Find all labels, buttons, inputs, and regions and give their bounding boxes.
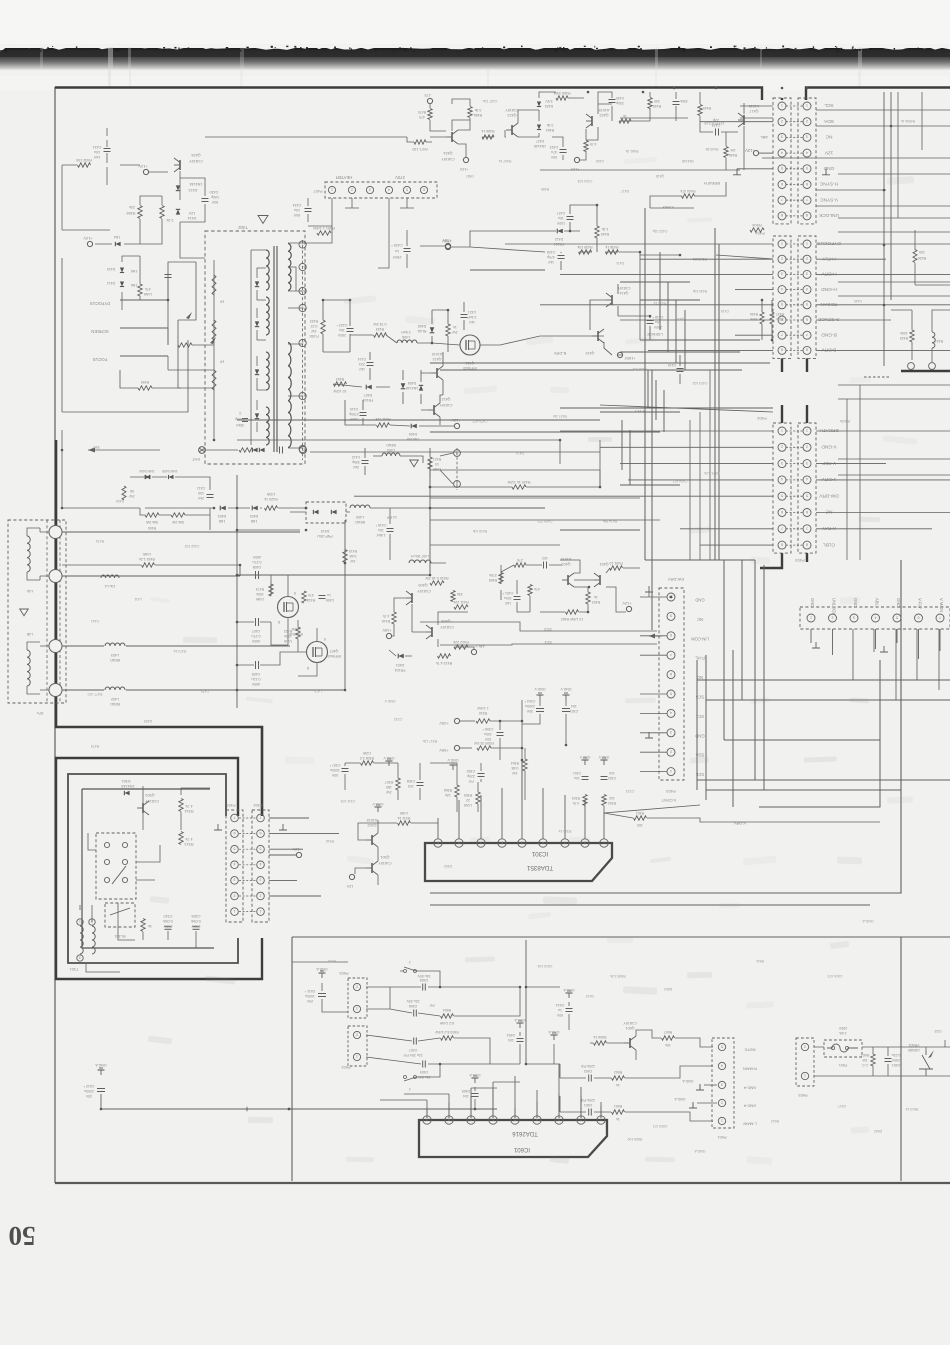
svg-text:1: 1 <box>806 241 808 245</box>
svg-text:R425: R425 <box>900 336 908 340</box>
svg-text:5: 5 <box>781 166 783 170</box>
svg-text:R468: R468 <box>474 113 482 117</box>
svg-text:GND-A: GND-A <box>563 988 575 992</box>
svg-text:1k: 1k <box>453 325 457 329</box>
svg-text:2: 2 <box>806 119 808 123</box>
svg-text:2: 2 <box>832 615 834 619</box>
svg-text:R466 1k: R466 1k <box>481 129 494 133</box>
terminal +180V <box>617 352 622 357</box>
capacitor C308 <box>417 782 424 784</box>
svg-text:0.22u: 0.22u <box>892 1053 901 1057</box>
svg-text:Q405: Q405 <box>418 583 427 587</box>
svg-text:7: 7 <box>781 333 783 337</box>
svg-text:1: 1 <box>781 428 783 432</box>
T402 hv diode 3 <box>255 369 259 374</box>
svg-text:3: 3 <box>564 840 566 844</box>
svg-text:R445: R445 <box>703 106 711 110</box>
svg-text:C305: C305 <box>467 769 475 773</box>
svg-text:1: 1 <box>356 1006 358 1010</box>
IC301 pin 4 <box>539 839 547 847</box>
svg-text:1000u: 1000u <box>330 768 340 772</box>
svg-text:GND-A: GND-A <box>862 919 874 923</box>
heater pin 5 <box>403 186 410 193</box>
wires q301 <box>355 820 438 885</box>
mid pin NC <box>667 671 675 679</box>
svg-text:TDA2616: TDA2616 <box>512 1130 538 1136</box>
svg-text:R602: R602 <box>614 1070 622 1074</box>
row pin GND <box>850 614 858 622</box>
svg-text:+18V: +18V <box>382 628 391 632</box>
svg-text:1: 1 <box>810 615 812 619</box>
resistor R411 <box>454 605 468 609</box>
svg-text:L4A: L4A <box>26 589 33 593</box>
diode D421 <box>419 385 423 390</box>
svg-text:1: 1 <box>603 840 605 844</box>
wire right mesh extras <box>838 217 950 219</box>
wires diff <box>501 560 640 612</box>
svg-text:Q426: Q426 <box>191 153 200 157</box>
resistor R473 <box>269 584 273 596</box>
wires hout4 <box>365 448 453 484</box>
svg-text:B-GND: B-GND <box>821 331 837 337</box>
svg-text:GND-V: GND-V <box>372 802 384 806</box>
svg-text:DYFOCUS: DYFOCUS <box>817 240 840 246</box>
svg-text:J: J <box>409 960 411 964</box>
svg-text:R452: R452 <box>336 377 344 381</box>
svg-text:33u 50V: 33u 50V <box>417 974 431 978</box>
svg-text:BEAD: BEAD <box>110 658 120 662</box>
yoke inner dashed <box>59 520 61 703</box>
diode D401 <box>398 654 404 659</box>
svg-text:R307: R307 <box>385 780 393 784</box>
wire sc2 long <box>420 622 657 631</box>
svg-text:3: 3 <box>79 955 81 959</box>
gnd vq <box>452 765 454 770</box>
transistor Q412 <box>433 405 435 415</box>
resistor R462b <box>566 610 579 614</box>
T402 hv diode 2 <box>255 321 259 326</box>
svg-text:2: 2 <box>234 893 236 897</box>
svg-text:Q303: Q303 <box>145 793 154 797</box>
svg-text:D406: D406 <box>409 432 417 436</box>
row pin UNLOCK <box>829 614 837 622</box>
svg-text:0.27u: 0.27u <box>252 634 261 638</box>
resistor R421 <box>428 457 432 469</box>
svg-text:1N4148: 1N4148 <box>534 144 546 148</box>
wire hfly <box>600 355 773 412</box>
diode D423 zener <box>537 102 541 107</box>
resistor R314 <box>179 799 183 812</box>
pin 8 B-DRV <box>778 346 786 354</box>
svg-text:H-FLY: H-FLY <box>821 255 835 261</box>
svg-text:330k: 330k <box>680 99 688 103</box>
svg-text:35V: 35V <box>526 709 533 713</box>
IC601 pin 3 <box>555 1116 563 1124</box>
capacitor C408 <box>255 571 257 579</box>
transistor Q424 <box>451 132 453 142</box>
transistor Q422 <box>591 116 593 126</box>
deflection block nested loop 3 <box>82 789 214 948</box>
svg-text:R410 0.18 2W: R410 0.18 2W <box>425 576 449 580</box>
terminal +30V <box>445 243 450 248</box>
wire mesh g3 right <box>816 430 950 432</box>
capacitor C418 <box>647 320 654 322</box>
wire fet2 <box>237 620 317 676</box>
resistor R472 <box>138 284 142 296</box>
svg-text:470: 470 <box>419 115 425 119</box>
resistor R306 <box>455 785 459 797</box>
T402 hv diode 5 <box>252 448 257 452</box>
svg-text:GND-V: GND-V <box>579 755 590 759</box>
svg-text:R470: R470 <box>418 110 426 114</box>
wire mesh g2 rows <box>505 243 773 245</box>
resistor R417 <box>451 591 455 602</box>
svg-text:2: 2 <box>356 984 358 988</box>
svg-text:250V: 250V <box>163 924 172 928</box>
mid pin SDA <box>667 748 675 756</box>
terminal 12v amp2 <box>574 157 579 162</box>
mid pin SC3 <box>667 690 675 698</box>
resistor R301 <box>634 816 647 820</box>
svg-text:R427 1M: R427 1M <box>553 414 567 418</box>
svg-text:150k: 150k <box>256 592 264 596</box>
svg-text:D414: D414 <box>188 216 197 220</box>
svg-text:250V: 250V <box>891 1058 900 1062</box>
svg-text:1000u: 1000u <box>305 994 315 998</box>
capacitor C423 <box>347 328 354 330</box>
svg-text:C1815Y: C1815Y <box>417 589 431 593</box>
svg-text:GND: GND <box>466 174 474 178</box>
svg-text:C408: C408 <box>253 565 262 569</box>
coil L405 <box>350 505 370 508</box>
svg-text:4: 4 <box>302 264 304 268</box>
svg-text:NC: NC <box>697 617 703 622</box>
svg-text:R433: R433 <box>376 327 384 331</box>
svg-text:D417: D417 <box>621 189 629 193</box>
svg-text:R424: R424 <box>935 339 943 343</box>
svg-text:GND-A: GND-A <box>548 1030 560 1034</box>
svg-text:50V: 50V <box>211 200 218 204</box>
transistor Q419 <box>743 115 745 125</box>
svg-text:C428: C428 <box>547 250 555 254</box>
svg-text:BEAD: BEAD <box>386 443 396 447</box>
diode D411 <box>120 282 124 287</box>
wires audio right <box>814 1040 950 1076</box>
svg-text:GND: GND <box>823 165 834 171</box>
svg-text:1/4W: 1/4W <box>142 552 151 556</box>
svg-text:R475: R475 <box>91 744 99 748</box>
svg-text:5: 5 <box>721 1044 723 1048</box>
mid pin SC1 <box>667 709 675 717</box>
capacitor C401 <box>514 596 521 598</box>
svg-text:R426: R426 <box>918 256 927 260</box>
resistor R468 <box>468 107 472 118</box>
svg-text:1/2W: 1/2W <box>266 492 275 496</box>
terminal 12v hout <box>454 423 459 428</box>
audio wires a <box>366 971 520 1077</box>
svg-text:10u: 10u <box>94 150 100 154</box>
pin 2 V-GND <box>778 443 786 451</box>
svg-text:D408: D408 <box>408 381 416 385</box>
resistor R463t <box>619 119 631 123</box>
gnd c614 <box>568 993 570 998</box>
resistor R471 <box>414 140 426 144</box>
coil L408 <box>397 340 417 343</box>
capacitor C611 <box>318 993 326 995</box>
pin 1 BREATH <box>778 427 786 435</box>
IC301 pin 6 <box>498 839 506 847</box>
resistor R431 <box>377 423 390 427</box>
svg-text:12V: 12V <box>346 884 353 888</box>
IC601 pin 1 <box>597 1116 605 1124</box>
resistor R405 <box>514 563 526 567</box>
wire heater pin4 down <box>378 198 389 268</box>
svg-text:C411: C411 <box>197 486 205 490</box>
svg-text:R414 56k: R414 56k <box>602 519 617 523</box>
resistor R434 <box>446 324 450 336</box>
svg-text:J: J <box>409 1087 411 1091</box>
pin 5 REGAN <box>778 301 786 309</box>
svg-text:Q424: Q424 <box>443 151 452 155</box>
svg-text:C.C: C.C <box>862 1063 869 1067</box>
svg-text:400V: 400V <box>251 682 260 686</box>
svg-text:3: 3 <box>781 461 783 465</box>
svg-text:R458: R458 <box>127 211 136 215</box>
svg-text:R316: R316 <box>326 839 334 843</box>
transistor Q411b <box>611 295 613 305</box>
svg-text:V MAIN: V MAIN <box>939 598 944 612</box>
svg-text:22u 25V: 22u 25V <box>406 999 420 1003</box>
svg-text:C1815Y: C1815Y <box>378 861 392 865</box>
svg-text:EHT: EHT <box>192 457 200 461</box>
resistor R304 <box>523 759 527 771</box>
svg-text:1: 1 <box>79 919 81 923</box>
P601 pin GND-A <box>718 1099 725 1106</box>
wire branch x430 <box>429 460 431 575</box>
resistor R410 <box>430 581 444 585</box>
svg-text:390k: 390k <box>776 317 784 321</box>
wires hout2 <box>333 352 443 425</box>
svg-text:P.E: P.E <box>429 1003 435 1007</box>
svg-text:1.8kV: 1.8kV <box>376 533 386 537</box>
resistor R463 <box>142 563 155 567</box>
svg-text:C607: C607 <box>409 1048 417 1052</box>
yoke coil H2 <box>27 650 30 686</box>
svg-text:FP: FP <box>219 359 224 363</box>
svg-text:D602: D602 <box>874 1129 882 1133</box>
pin 8 UNLOCK <box>778 212 786 220</box>
capacitor eht <box>279 447 281 454</box>
svg-text:B-DRV: B-DRV <box>821 347 837 353</box>
svg-text:EHT: EHT <box>93 445 100 449</box>
wire d419 row <box>290 508 430 512</box>
svg-text:2: 2 <box>670 750 672 754</box>
svg-text:100: 100 <box>198 491 204 495</box>
svg-text:10u: 10u <box>339 328 345 332</box>
svg-text:R314: R314 <box>184 809 193 813</box>
focus pack loop 2 <box>178 262 214 388</box>
svg-text:1N8: 1N8 <box>251 519 258 523</box>
svg-text:2: 2 <box>351 187 353 191</box>
svg-text:104: 104 <box>463 1094 469 1098</box>
svg-text:R477 470: R477 470 <box>88 692 103 696</box>
svg-text:C616 473: C616 473 <box>828 974 843 978</box>
svg-text:33k: 33k <box>457 592 463 596</box>
svg-text:6: 6 <box>806 317 808 321</box>
svg-text:-175: -175 <box>424 93 431 97</box>
capacitor C602 <box>588 1075 590 1082</box>
capacitor C427 <box>567 216 574 218</box>
T402 pin 5 <box>299 304 306 311</box>
svg-text:4: 4 <box>670 711 672 715</box>
resistor R407 <box>528 585 532 596</box>
svg-text:R311 1k: R311 1k <box>397 816 410 820</box>
svg-text:R303: R303 <box>572 796 580 800</box>
wire long audio <box>101 1094 497 1109</box>
mid pin NC <box>667 612 675 620</box>
svg-text:+12V: +12V <box>459 167 468 171</box>
gnd c301 <box>584 760 586 765</box>
svg-text:Q302: Q302 <box>367 823 376 827</box>
capacitor C614 <box>566 1008 573 1010</box>
svg-text:104: 104 <box>571 704 577 708</box>
capacitor C406b <box>319 595 326 597</box>
svg-text:9: 9 <box>670 614 672 618</box>
svg-text:SCREEN: SCREEN <box>91 329 108 334</box>
relay RL301 dashed box <box>96 833 136 899</box>
wire long horizontals mid2 <box>237 439 560 441</box>
svg-text:4: 4 <box>806 150 808 154</box>
svg-text:1: 1 <box>302 447 304 451</box>
svg-text:C415: C415 <box>721 309 729 313</box>
wires vpow2 <box>345 748 525 812</box>
P601 pin GND-A <box>718 1081 725 1088</box>
svg-text:R401 10: R401 10 <box>609 561 622 565</box>
P302 pin 1 <box>231 908 239 916</box>
svg-text:H-GND: H-GND <box>821 286 837 292</box>
svg-text:1: 1 <box>806 428 808 432</box>
svg-text:C: C <box>238 411 241 415</box>
svg-text:R416: R416 <box>382 619 390 623</box>
transistor Q601 <box>629 1038 631 1048</box>
svg-text:2: 2 <box>806 257 808 261</box>
transistor Q405 <box>411 593 413 603</box>
P601 pin L-MAIN <box>718 1117 725 1124</box>
svg-text:DYFOCUS: DYFOCUS <box>90 301 111 306</box>
svg-text:C308: C308 <box>407 779 415 783</box>
svg-text:C617: C617 <box>838 1104 846 1108</box>
svg-text:GND: GND <box>695 598 704 603</box>
pin 4 12V <box>778 149 786 157</box>
svg-text:4.7k: 4.7k <box>589 142 596 146</box>
svg-text:L410: L410 <box>314 689 322 693</box>
diode D412 <box>557 229 563 234</box>
svg-text:D403: D403 <box>218 514 227 518</box>
IC301 pin 1 <box>600 839 608 847</box>
svg-text:L411: L411 <box>134 597 141 601</box>
svg-text:5: 5 <box>406 187 408 191</box>
svg-text:1k: 1k <box>616 1117 620 1121</box>
op-amp IC601 TDA2616 body <box>419 1120 607 1157</box>
svg-text:R430 10k: R430 10k <box>692 289 707 293</box>
svg-text:2: 2 <box>781 257 783 261</box>
wires P302 right leads <box>269 817 309 819</box>
svg-text:P303: P303 <box>227 803 236 807</box>
capacitor C310 <box>165 926 172 928</box>
bus top right <box>806 88 950 101</box>
svg-text:1: 1 <box>234 909 236 913</box>
resistor R432 <box>78 163 91 167</box>
svg-text:C429: C429 <box>712 123 720 127</box>
relay coil box <box>105 903 135 927</box>
svg-text:C430: C430 <box>616 96 624 100</box>
svg-text:C1815Y: C1815Y <box>189 159 203 163</box>
svg-text:1kV: 1kV <box>547 260 554 264</box>
svg-text:103: 103 <box>408 784 414 788</box>
svg-text:IRF9640: IRF9640 <box>327 654 341 658</box>
svg-text:1: 1 <box>806 103 808 107</box>
svg-text:R459: R459 <box>541 187 549 191</box>
svg-text:C437 10u: C437 10u <box>483 99 498 103</box>
row pin GND <box>893 614 901 622</box>
svg-text:R412 22k: R412 22k <box>453 640 469 644</box>
NC arrow <box>649 635 662 637</box>
svg-text:C307 *: C307 * <box>329 763 340 767</box>
connector P603 right <box>796 1038 814 1086</box>
svg-text:470p: 470p <box>547 255 555 259</box>
svg-text:R429 1k: R429 1k <box>653 301 666 305</box>
diode D406 <box>411 424 417 429</box>
capacitor C615 <box>885 1058 892 1060</box>
gnd hooks g1 <box>733 169 741 175</box>
svg-text:4: 4 <box>234 862 236 866</box>
svg-text:C405 223: C405 223 <box>538 519 553 523</box>
svg-text:3: 3 <box>369 187 371 191</box>
svg-text:6: 6 <box>781 182 783 186</box>
svg-text:+50V: +50V <box>442 239 452 244</box>
svg-text:4: 4 <box>721 1063 723 1067</box>
svg-text:TDA8351: TDA8351 <box>526 864 553 871</box>
svg-text:R-MAIN: R-MAIN <box>743 1067 757 1072</box>
svg-text:C434: C434 <box>293 203 302 207</box>
svg-text:7: 7 <box>670 653 672 657</box>
svg-text:MUTE: MUTE <box>744 1048 755 1053</box>
svg-text:SC1: SC1 <box>544 640 551 644</box>
capacitor C429 <box>715 129 717 136</box>
svg-text:250V: 250V <box>337 333 346 337</box>
wire top-left to flyback <box>62 165 110 230</box>
P302 pin 7 <box>231 814 239 822</box>
gnd C304 <box>539 695 541 700</box>
svg-text:R612: R612 <box>771 1119 779 1123</box>
svg-text:35V: 35V <box>85 1094 92 1098</box>
T402 primary winding 1 <box>266 250 269 290</box>
svg-text:HEATER: HEATER <box>336 175 353 180</box>
svg-text:5: 5 <box>234 847 236 851</box>
capacitor C601 <box>588 1109 590 1116</box>
gnd extra1 <box>553 1035 555 1040</box>
wire eht left arrow <box>88 449 160 451</box>
svg-text:R437: R437 <box>776 312 784 316</box>
IC601 pin 6 <box>489 1116 497 1124</box>
deflection block nested loop 2 <box>68 774 238 963</box>
thick right bus <box>901 370 950 373</box>
wires abl <box>650 103 744 208</box>
svg-text:220p: 220p <box>467 774 475 778</box>
row pin V-FLY <box>915 614 923 622</box>
svg-text:1N6 D405: 1N6 D405 <box>162 469 177 473</box>
wire mesh g2 right <box>816 243 950 245</box>
